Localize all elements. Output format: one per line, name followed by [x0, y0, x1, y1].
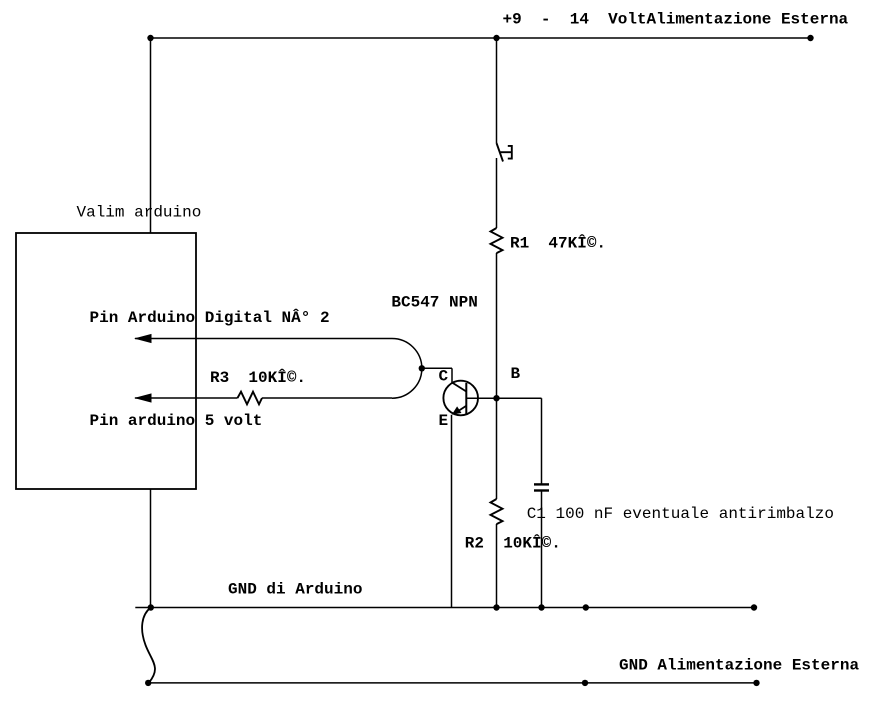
- wire squiggle between grounds: [142, 608, 155, 683]
- switch S1 actuator stem: [501, 151, 512, 153]
- wire collector vertical: [451, 368, 453, 383]
- svg-text:BC547 NPN: BC547 NPN: [391, 294, 477, 312]
- wire 5 volt pin right segment: [262, 397, 392, 399]
- node GND mid dot: [583, 604, 589, 610]
- switch S1 actuator bracket: [508, 146, 512, 159]
- svg-text:Valim arduino: Valim arduino: [77, 204, 202, 222]
- node junction top-left: [147, 35, 153, 41]
- wire C1 branch vertical upper: [541, 398, 543, 484]
- node bottom-left terminal: [145, 680, 151, 686]
- wire collector horizontal: [422, 367, 452, 369]
- svg-text:GND Alimentazione Esterna: GND Alimentazione Esterna: [619, 656, 859, 674]
- svg-text:Pin arduino 5 volt: Pin arduino 5 volt: [90, 412, 263, 430]
- wire top positive rail: [151, 37, 811, 39]
- transistor Q1 base bar: [465, 383, 467, 414]
- svg-text:C1 100 nF eventuale antirimbal: C1 100 nF eventuale antirimbalzo: [527, 505, 834, 523]
- node GND left junction: [148, 604, 154, 610]
- svg-text:GND di Arduino: GND di Arduino: [228, 580, 362, 598]
- svg-text:Pin Arduino Digital NÂ° 2: Pin Arduino Digital NÂ° 2: [90, 308, 330, 327]
- wire digital pin 2 horizontal: [135, 338, 392, 340]
- svg-text:E: E: [439, 412, 449, 430]
- svg-text:R2 10KÎ©.: R2 10KÎ©.: [465, 533, 561, 552]
- resistor R3: [238, 392, 263, 405]
- transistor Q1 emitter arrowhead: [452, 406, 462, 414]
- svg-text:B: B: [511, 365, 521, 383]
- wire base horizontal to C1 branch: [466, 397, 541, 399]
- wire R2 bottom to GND rail: [496, 524, 498, 608]
- capacitor C1 bottom plate: [534, 489, 549, 491]
- node terminal top-right: [807, 35, 813, 41]
- node collector junction: [419, 365, 425, 371]
- arrowhead into digital pin 2: [134, 334, 152, 343]
- wire switch branch upper: [496, 38, 498, 143]
- arrowhead into 5 volt pin: [134, 393, 152, 402]
- node GND R2 junction: [493, 604, 499, 610]
- box Arduino: [16, 233, 196, 489]
- node bottom mid dot: [582, 680, 588, 686]
- wire GND di Arduino rail: [135, 607, 754, 609]
- svg-text:R3 10KÎ©.: R3 10KÎ©.: [210, 368, 306, 387]
- resistor R1: [491, 228, 503, 253]
- wire from box bottom to GND rail: [150, 489, 152, 608]
- svg-text:R1 47KÎ©.: R1 47KÎ©.: [510, 234, 606, 253]
- wire C1 branch vertical lower: [541, 491, 543, 608]
- node GND right terminal: [751, 604, 757, 610]
- svg-text:C: C: [439, 368, 449, 386]
- wire loop arc joining pin wires to collector: [392, 339, 422, 399]
- capacitor C1 top plate: [534, 483, 549, 485]
- transistor Q1 emitter diagonal: [456, 406, 466, 413]
- wire GND Alimentazione Esterna rail: [148, 682, 756, 684]
- node base junction: [493, 395, 499, 401]
- transistor Q1 BC547 circle: [443, 381, 478, 416]
- node junction top switch branch: [493, 35, 499, 41]
- node bottom-right terminal: [753, 680, 759, 686]
- svg-text:+9 - 14 VoltAlimentazione E: +9 - 14 VoltAlimentazione Esterna: [503, 11, 849, 29]
- wire switch lower contact: [496, 158, 498, 228]
- wire R1 bottom to base node to R2 top: [496, 253, 498, 499]
- resistor R2: [491, 499, 503, 524]
- wire emitter vertical to GND rail: [451, 415, 453, 608]
- node GND C1 junction: [538, 604, 544, 610]
- transistor Q1 collector diagonal: [452, 383, 466, 392]
- wire Valim vertical from top rail to box: [150, 38, 152, 233]
- switch S1 blade: [497, 143, 504, 162]
- wire 5 volt pin left segment: [135, 397, 238, 399]
